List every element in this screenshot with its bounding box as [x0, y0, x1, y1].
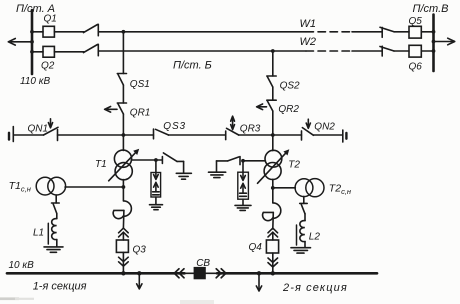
svg-text:QS1: QS1: [130, 79, 150, 90]
svg-text:2-я секция: 2-я секция: [282, 282, 348, 294]
svg-text:Т1: Т1: [95, 159, 107, 170]
svg-text:QN2: QN2: [314, 121, 335, 132]
svg-text:W2: W2: [300, 36, 317, 48]
svg-text:1-я секция: 1-я секция: [33, 281, 87, 293]
svg-text:Q4: Q4: [249, 242, 263, 253]
svg-text:QN1: QN1: [28, 124, 49, 135]
svg-text:Q2: Q2: [41, 61, 55, 72]
svg-text:L1: L1: [33, 228, 44, 239]
svg-text:110 кВ: 110 кВ: [20, 76, 50, 87]
svg-text:W1: W1: [300, 18, 317, 30]
svg-text:Q3: Q3: [133, 244, 147, 255]
svg-text:П/ст. Б: П/ст. Б: [173, 60, 212, 72]
svg-text:QS2: QS2: [280, 80, 300, 91]
svg-text:QR1: QR1: [130, 108, 151, 119]
svg-text:10 кВ: 10 кВ: [9, 260, 35, 271]
svg-text:QS3: QS3: [163, 121, 186, 132]
svg-text:СВ: СВ: [196, 258, 210, 269]
svg-text:Q6: Q6: [409, 62, 423, 73]
svg-text:L2: L2: [309, 232, 321, 243]
svg-text:QR2: QR2: [278, 104, 299, 115]
svg-text:QR3: QR3: [240, 123, 261, 134]
svg-text:П/ст.В: П/ст.В: [413, 3, 449, 15]
svg-text:Т2: Т2: [288, 159, 300, 170]
svg-text:Q5: Q5: [409, 16, 423, 27]
svg-text:Q1: Q1: [44, 14, 57, 25]
